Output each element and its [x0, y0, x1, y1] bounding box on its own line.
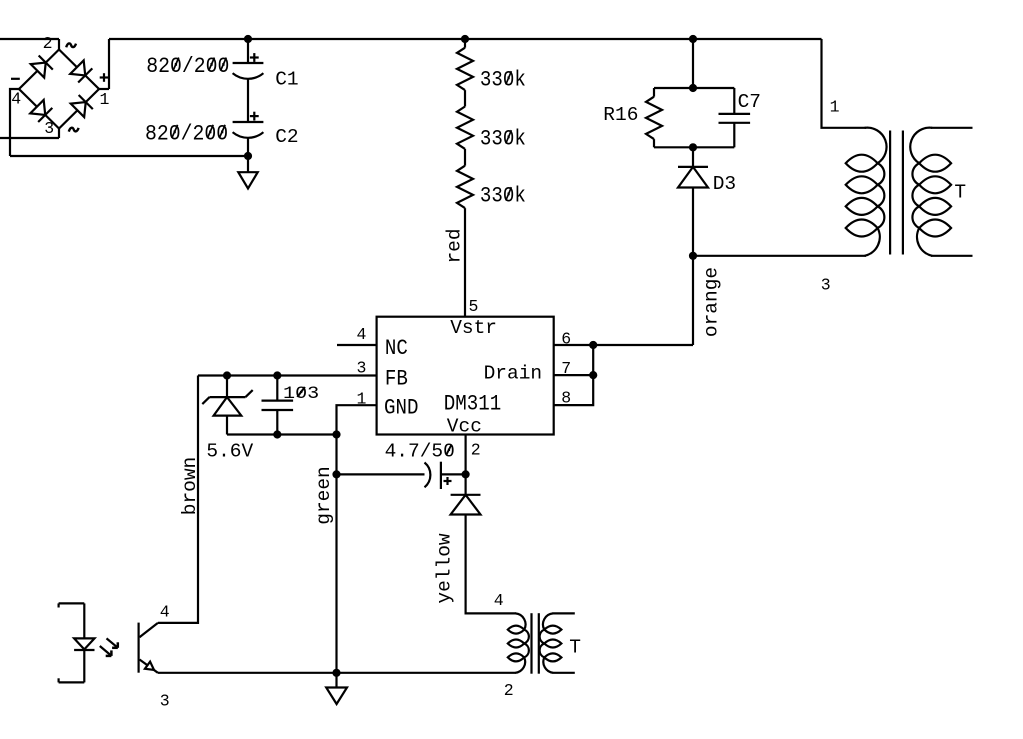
label bridge minus: [11, 78, 20, 80]
label C1 name: [275, 69, 298, 91]
diode Vcc rectifier: [451, 495, 481, 515]
node cap103 bottom junction: [273, 430, 281, 438]
wire red to Vstr: [464, 208, 466, 317]
wire cap4.7 left lead: [337, 473, 425, 475]
svg-text:T: T: [569, 636, 581, 658]
node ground junction lower: [332, 669, 340, 677]
label T1 name: [954, 182, 966, 204]
wire bridge top stub: [58, 39, 60, 50]
svg-text:2: 2: [471, 441, 481, 460]
label bridge plus: [100, 73, 109, 82]
wire T2 secondary top stub: [553, 612, 575, 614]
svg-text:green: green: [313, 466, 335, 525]
zener diode 5.6V: [202, 390, 252, 416]
wire snubber bottom bar: [654, 146, 734, 148]
label U1 GND: [384, 396, 418, 421]
svg-text:330k: 330k: [480, 127, 526, 152]
svg-text:DM311: DM311: [444, 392, 501, 417]
label bridge AC tilde bottom: [69, 128, 79, 132]
wire T2 secondary bottom stub: [553, 672, 575, 674]
svg-text:Vcc: Vcc: [447, 415, 482, 437]
svg-text:NC: NC: [385, 337, 408, 362]
wire cap4.7 right lead: [441, 473, 466, 475]
wire pin6 drain: [554, 344, 693, 346]
label U1 pin 8: [561, 389, 571, 408]
svg-text:GND: GND: [384, 396, 418, 421]
node snubber split junction: [689, 84, 697, 92]
svg-text:yellow: yellow: [434, 533, 456, 604]
svg-text:2: 2: [504, 681, 514, 700]
wire FB network bottom: [227, 433, 337, 435]
svg-text:1: 1: [830, 97, 840, 116]
diode D3: [678, 167, 708, 188]
diode bridge D lower-left: [30, 100, 52, 122]
label U1 Drain: [484, 363, 543, 385]
transformer T2 secondary coil: [540, 613, 562, 672]
wire chain link 2: [464, 149, 466, 166]
node C2 bottom junction: [244, 152, 252, 160]
capacitor C1: [233, 53, 264, 79]
wire cap103 bottom lead: [276, 410, 278, 435]
label U1 Vstr: [450, 317, 497, 339]
wire zener bottom lead: [226, 416, 228, 435]
label bridge pin 3: [44, 119, 54, 138]
svg-text:C2: C2: [275, 126, 298, 148]
LED light arrow lower: [100, 646, 112, 656]
svg-text:C1: C1: [275, 69, 298, 91]
wire chain top lead: [464, 39, 466, 48]
wire T1 secondary top stub: [931, 127, 973, 129]
label U1 pin 2: [471, 441, 481, 460]
label C1 value: [146, 54, 229, 79]
wire top rail corner: [822, 39, 867, 128]
wire AC input bottom: [0, 137, 59, 139]
svg-text:Vstr: Vstr: [450, 317, 497, 339]
svg-text:3: 3: [44, 119, 54, 138]
label U1 pin 1: [357, 389, 367, 408]
wire LED cathode lead: [83, 650, 85, 682]
svg-text:C7: C7: [738, 91, 761, 113]
svg-text:820/200: 820/200: [145, 121, 228, 146]
label U1 pin 4: [357, 325, 367, 344]
label T2 pin 2: [504, 681, 514, 700]
svg-text:4: 4: [11, 90, 21, 109]
wire C1-C2 link: [247, 79, 249, 122]
label net brown: [179, 457, 201, 516]
wire plus riser: [108, 39, 110, 89]
wire D3 bottom lead: [692, 188, 694, 256]
svg-text:red: red: [444, 228, 466, 263]
label D3: [713, 173, 736, 195]
label R16: [603, 104, 638, 126]
wire pin8 drain: [554, 345, 594, 405]
label C2 value: [145, 121, 228, 146]
node Vcc junction: [462, 470, 470, 478]
wire pin4 NC stub: [337, 344, 377, 346]
resistor 330k top: [457, 48, 473, 90]
wire C2 bottom lead: [247, 138, 249, 156]
wire pin1 GND: [337, 405, 377, 434]
wire snubber top lead: [692, 39, 694, 88]
svg-text:2: 2: [43, 34, 53, 53]
label T2 pin 4: [494, 591, 504, 610]
node snubber top junction: [689, 35, 697, 43]
label cap 103: [283, 383, 319, 404]
label bridge pin 4: [11, 90, 21, 109]
label zener value 5.6V: [206, 441, 253, 463]
wire bottom-left rail: [10, 155, 248, 157]
label net yellow: [434, 533, 456, 604]
label U1 pin 6: [561, 330, 571, 349]
wire snubber top bar: [654, 87, 734, 89]
label opto pin 4: [160, 602, 170, 621]
LED of optocoupler: [74, 638, 94, 650]
label 330k middle: [480, 127, 526, 152]
LED light arrow upper: [107, 638, 118, 647]
node resistor chain top junction: [461, 35, 469, 43]
svg-text:4: 4: [357, 325, 367, 344]
wire bottom rail: [158, 672, 516, 674]
wire cap103 top lead: [276, 376, 278, 401]
resistor 330k bottom: [457, 166, 473, 208]
wire LED anode lead: [83, 603, 85, 638]
label U1 FB: [385, 367, 408, 392]
optocoupler LED bracket bottom: [59, 678, 85, 682]
svg-text:D3: D3: [713, 173, 736, 195]
diode bridge D upper-right: [70, 60, 92, 82]
node C1 top junction: [244, 35, 252, 43]
svg-text:330k: 330k: [480, 68, 526, 93]
ground symbol upper: [238, 156, 257, 189]
svg-text:T: T: [954, 182, 966, 204]
wire bridge bottom stub: [58, 129, 60, 139]
wire C1 top lead: [247, 39, 249, 63]
label C2 name: [275, 126, 298, 148]
node D3 top junction: [689, 143, 697, 151]
label net red: [444, 228, 466, 263]
bridge rectifier diamond: [19, 50, 99, 129]
svg-text:brown: brown: [179, 457, 201, 516]
optocoupler LED bracket top: [59, 603, 85, 607]
label U1 pin 3: [357, 359, 367, 378]
label C7: [738, 91, 761, 113]
wire DC top rail: [109, 38, 822, 40]
node orange junction: [689, 252, 697, 260]
svg-text:820/200: 820/200: [146, 54, 229, 79]
label U1 Vcc: [447, 415, 482, 437]
wire pin2 Vcc lead: [465, 435, 467, 475]
capacitor 4.7/50: [425, 462, 452, 489]
wire chain link 1: [464, 90, 466, 106]
svg-text:3: 3: [160, 691, 170, 710]
label net orange: [701, 267, 723, 337]
capacitor C2: [233, 112, 264, 138]
wire zener top lead: [226, 376, 228, 398]
svg-text:3: 3: [821, 276, 831, 295]
capacitor C7: [719, 88, 751, 147]
transformer T1 primary coil: [846, 128, 887, 256]
label U1 pin 5: [469, 297, 479, 316]
svg-text:orange: orange: [701, 267, 723, 337]
wire bridge minus out: [10, 89, 19, 156]
node drain junction 6: [589, 341, 597, 349]
label 330k top: [480, 68, 526, 93]
transformer T1 core: [890, 131, 903, 255]
resistor 330k middle: [457, 107, 473, 149]
transformer T2 core: [532, 613, 539, 674]
ground symbol lower: [326, 673, 347, 704]
label bridge pin 1: [100, 90, 110, 109]
node zener top junction: [223, 371, 231, 379]
node drain junction 7: [589, 371, 597, 379]
svg-text:Drain: Drain: [484, 363, 543, 385]
transistor opto phototransistor base bar: [138, 623, 140, 673]
svg-text:FB: FB: [385, 367, 408, 392]
wire D3 top lead: [692, 147, 694, 167]
node green cap junction: [332, 470, 340, 478]
svg-text:5.6V: 5.6V: [206, 441, 253, 463]
wire T1 primary bottom: [693, 255, 866, 257]
label U1 DM311: [444, 392, 501, 417]
label T1 pin 3: [821, 276, 831, 295]
wire AC input top: [0, 38, 59, 40]
svg-text:4: 4: [160, 602, 170, 621]
label cap 4.7/50: [385, 440, 455, 462]
wire T1 secondary bottom stub: [931, 255, 973, 257]
resistor R16: [646, 88, 662, 147]
diode bridge D upper-left: [30, 55, 52, 77]
wire net yellow: [466, 515, 516, 614]
transformer T1 secondary coil: [910, 128, 951, 256]
wire net green: [335, 435, 337, 673]
wire net brown: [158, 376, 198, 623]
svg-text:1: 1: [100, 90, 110, 109]
label bridge AC tilde top: [66, 43, 76, 47]
wire pin3 FB: [198, 374, 377, 376]
svg-text:4.7/50: 4.7/50: [385, 440, 455, 462]
label net green: [313, 466, 335, 525]
wire opto emitter: [140, 660, 158, 673]
label U1 NC: [385, 337, 408, 362]
op-amp U1 DM311 body: [377, 317, 554, 435]
label 330k bottom: [480, 184, 526, 209]
svg-text:4: 4: [494, 591, 504, 610]
svg-text:R16: R16: [603, 104, 638, 126]
wire opto collector: [140, 623, 158, 637]
svg-text:330k: 330k: [480, 184, 526, 209]
wire Vcc diode top lead: [465, 474, 467, 494]
wire bridge plus out: [99, 88, 109, 90]
label opto pin 3: [160, 691, 170, 710]
node green top junction: [332, 430, 340, 438]
node cap103 top junction: [273, 371, 281, 379]
label T1 pin 1: [830, 97, 840, 116]
svg-text:5: 5: [469, 297, 479, 316]
wire pin7 drain: [554, 374, 594, 376]
transformer T2 primary coil: [508, 613, 529, 672]
diode bridge D lower-right: [70, 95, 92, 117]
wire net orange: [692, 256, 694, 345]
label bridge pin 2: [43, 34, 53, 53]
capacitor 103: [262, 401, 294, 410]
label T2 name: [569, 636, 581, 658]
label U1 pin 7: [561, 359, 571, 378]
